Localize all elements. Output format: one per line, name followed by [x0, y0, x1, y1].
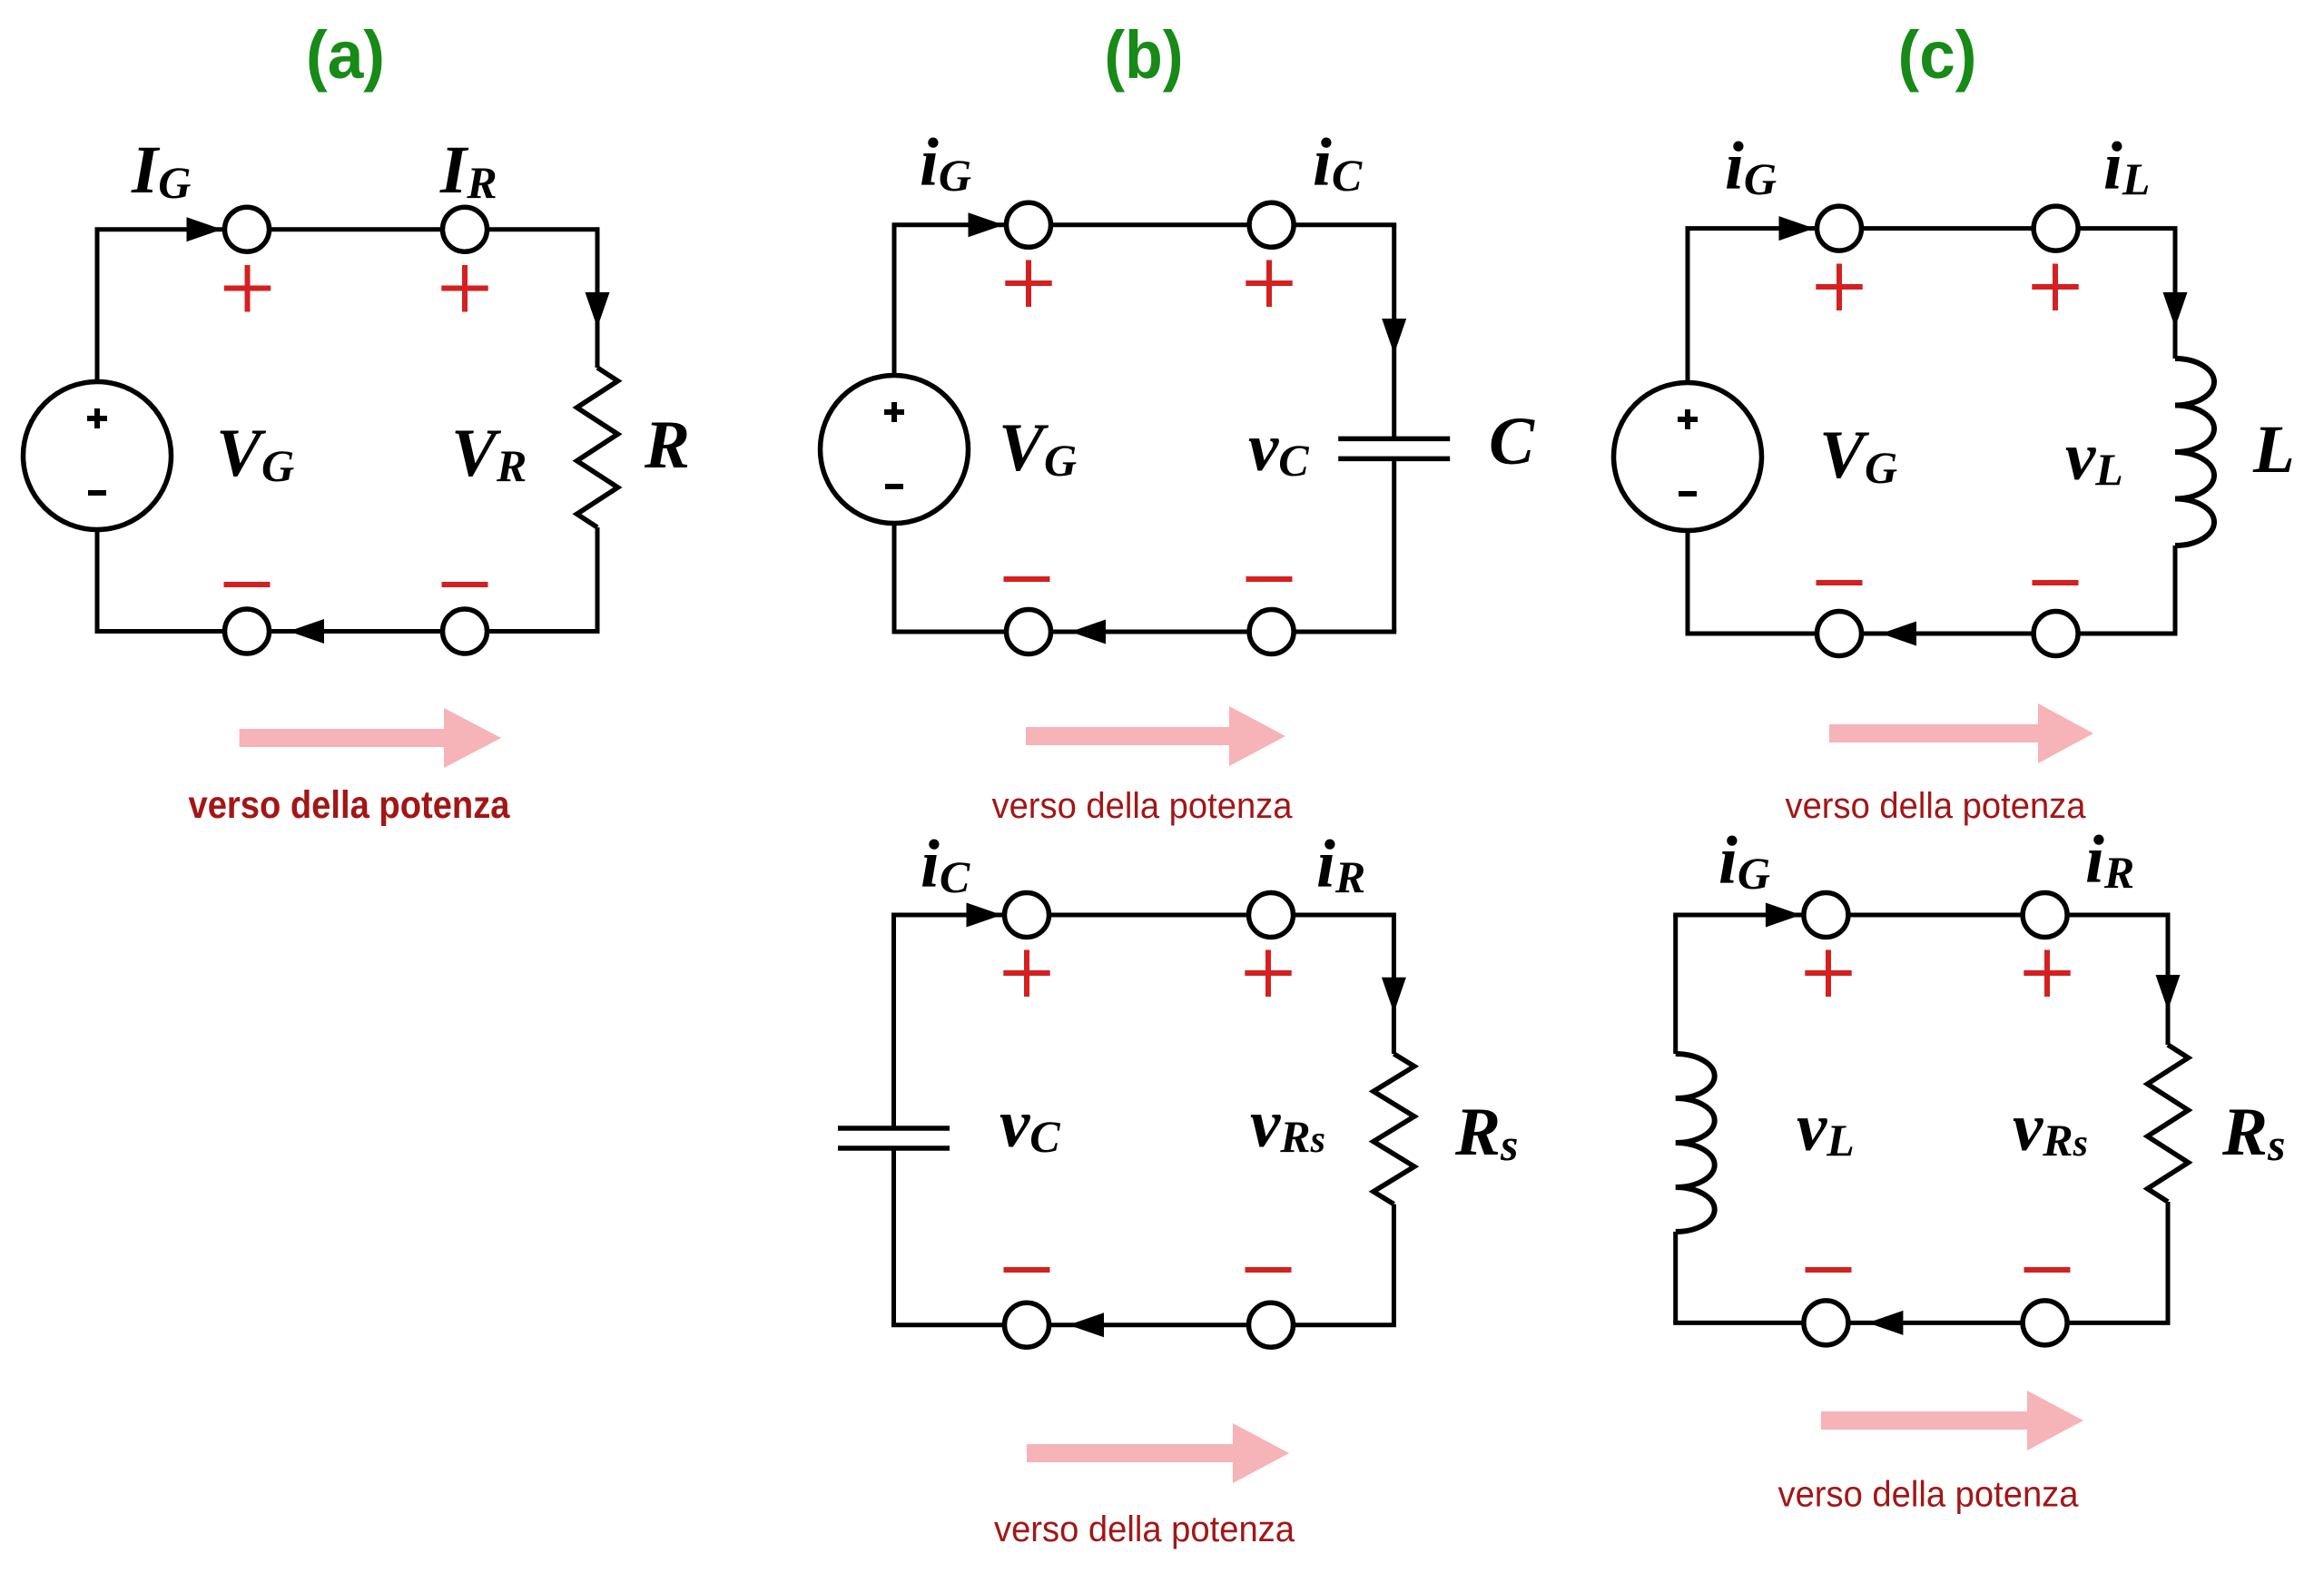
label IR (a): [439, 133, 497, 208]
svg-text:verso della potenza: verso della potenza: [1786, 786, 2087, 826]
caption verso della potenza (d): [994, 1509, 1295, 1549]
label iG (e): [1718, 823, 1770, 899]
current arrow iG (b): [969, 212, 1004, 237]
label VG (c): [1819, 418, 1897, 493]
power direction arrow (b): [1026, 706, 1285, 766]
polarity - vC terminal (b): [1246, 576, 1293, 582]
node bottom-left (d): [1005, 1303, 1049, 1347]
node top-right (e): [2023, 893, 2067, 938]
label iC (d): [921, 827, 970, 902]
node bottom-left (a): [225, 609, 270, 654]
capacitor C (b): [1338, 438, 1450, 458]
power direction arrow (c): [1829, 703, 2093, 763]
resistor Rs (d): [1374, 1054, 1414, 1204]
voltage source VG (b): [821, 376, 969, 524]
caption verso della potenza (e): [1778, 1475, 2080, 1515]
wire left (b): [892, 225, 897, 632]
current arrow iG (c): [1779, 216, 1815, 241]
polarity + vL terminal (c): [2032, 264, 2078, 311]
label vRs (d): [1250, 1086, 1325, 1162]
wire top (d): [891, 913, 1396, 918]
wire top (c): [1686, 226, 2178, 231]
node top-right (d): [1249, 893, 1294, 938]
label VG (a): [216, 416, 294, 491]
svg-text:(c): (c): [1898, 17, 1977, 93]
node bottom-left (b): [1007, 610, 1051, 654]
inductor L (c): [2175, 359, 2214, 546]
node top-left (d): [1005, 893, 1049, 938]
resistor Rs (e): [2148, 1045, 2189, 1202]
label L (c): [2252, 412, 2295, 487]
return current arrow (c): [1881, 622, 1916, 646]
return current arrow (e): [1867, 1311, 1903, 1335]
label vC (d): [1000, 1086, 1060, 1162]
node top-left (c): [1817, 206, 1862, 251]
svg-text:verso della potenza: verso della potenza: [1778, 1475, 2080, 1515]
label Rs (d): [1454, 1095, 1519, 1170]
power direction arrow (e): [1821, 1391, 2083, 1450]
power direction arrow (a): [240, 708, 501, 768]
label iG (b): [920, 125, 971, 201]
polarity + vC terminal (d): [1003, 950, 1049, 998]
label IG (a): [131, 133, 191, 208]
power direction arrow (d): [1027, 1423, 1289, 1483]
label iR (e): [2085, 822, 2134, 898]
node top-left (e): [1804, 893, 1848, 938]
caption verso della potenza (a): [189, 783, 511, 827]
label C (b): [1489, 404, 1535, 479]
node top-left (a): [225, 207, 270, 251]
node bottom-left (c): [1817, 612, 1862, 656]
header (c): [1898, 17, 1977, 93]
polarity + VG terminal (a): [224, 265, 271, 312]
current arrow iG (e): [1766, 903, 1801, 928]
node bottom-left (e): [1804, 1301, 1848, 1345]
wire right (e): [2166, 915, 2171, 1322]
voltage source VG (c): [1614, 383, 1762, 531]
header (a): [306, 17, 385, 93]
wire bottom (d): [891, 1322, 1396, 1327]
voltage source VG (a): [24, 382, 172, 530]
current arrow iR (e): [2156, 975, 2181, 1010]
wire left (a): [95, 230, 100, 632]
polarity - VR terminal (a): [442, 582, 488, 587]
polarity - VG terminal (b): [1004, 576, 1050, 582]
label vRs (e): [2013, 1090, 2088, 1165]
label VG (b): [999, 410, 1077, 486]
node top-right (b): [1249, 202, 1294, 247]
node top-right (c): [2033, 206, 2078, 251]
polarity - vL terminal (c): [2033, 580, 2079, 585]
svg-text:(a): (a): [306, 17, 385, 93]
current arrow iL (c): [2163, 292, 2188, 328]
svg-text:C: C: [1489, 404, 1535, 479]
label iL (c): [2103, 129, 2150, 204]
current arrow iC (b): [1382, 319, 1406, 354]
polarity + VR terminal (a): [441, 265, 487, 312]
return current arrow (b): [1070, 620, 1106, 644]
svg-text:verso della potenza: verso della potenza: [189, 783, 511, 827]
wire top (e): [1673, 913, 2170, 918]
wire top (b): [892, 222, 1397, 227]
label iR (d): [1316, 827, 1365, 902]
polarity + vRs terminal (e): [2024, 950, 2070, 998]
polarity + VG terminal (b): [1005, 261, 1051, 308]
label vL (e): [1797, 1090, 1855, 1165]
svg-text:L: L: [2252, 412, 2295, 487]
label vC (b): [1248, 410, 1309, 486]
header (b): [1105, 17, 1184, 93]
wire right (d): [1392, 915, 1396, 1325]
polarity - vRs terminal (d): [1246, 1267, 1292, 1273]
return current arrow (d): [1068, 1312, 1104, 1337]
current arrow iR (d): [1382, 978, 1406, 1013]
caption verso della potenza (c): [1786, 786, 2087, 826]
wire bottom (b): [892, 630, 1397, 634]
polarity - vC terminal (d): [1004, 1267, 1050, 1273]
wire right (b): [1392, 225, 1396, 632]
wire right (a): [596, 230, 600, 632]
polarity + vL terminal (e): [1805, 950, 1851, 998]
label Rs (e): [2221, 1095, 2286, 1170]
label R (a): [644, 408, 690, 483]
caption verso della potenza (b): [992, 786, 1294, 826]
wire top (a): [95, 227, 600, 231]
polarity + vRs terminal (d): [1245, 950, 1291, 998]
node bottom-right (e): [2023, 1301, 2067, 1345]
node bottom-right (d): [1249, 1303, 1294, 1347]
capacitor C (d): [838, 1128, 950, 1148]
polarity - vRs terminal (e): [2024, 1267, 2071, 1273]
svg-text:R: R: [644, 408, 690, 483]
current arrow iC (d): [967, 903, 1002, 928]
label vL (c): [2065, 419, 2123, 495]
polarity - VG terminal (a): [224, 582, 271, 587]
wire left (c): [1686, 229, 1690, 634]
current arrow IG (a): [187, 217, 222, 241]
node bottom-right (c): [2033, 612, 2078, 656]
svg-text:verso della potenza: verso della potenza: [994, 1509, 1295, 1549]
inductor L (e): [1676, 1054, 1715, 1232]
node top-right (a): [443, 207, 487, 251]
svg-text:(b): (b): [1105, 17, 1184, 93]
polarity + VG terminal (c): [1816, 264, 1862, 311]
current arrow IR (a): [586, 292, 610, 328]
polarity - vL terminal (e): [1806, 1267, 1852, 1273]
wire bottom (a): [95, 629, 600, 634]
wire left (e): [1673, 915, 1678, 1322]
label iG (c): [1725, 129, 1777, 204]
polarity - VG terminal (c): [1817, 580, 1863, 585]
node bottom-right (b): [1249, 610, 1294, 654]
resistor R (a): [577, 368, 618, 527]
polarity + vC terminal (b): [1246, 261, 1292, 308]
return current arrow (a): [289, 619, 324, 644]
wire left (d): [891, 915, 896, 1325]
label iC (b): [1313, 125, 1363, 201]
wire bottom (c): [1686, 632, 2178, 636]
wire right (c): [2173, 229, 2178, 634]
wire bottom (e): [1673, 1321, 2170, 1325]
svg-text:verso della potenza: verso della potenza: [992, 786, 1294, 826]
node top-left (b): [1007, 202, 1051, 247]
node bottom-right (a): [443, 609, 487, 654]
label VR (a): [451, 416, 527, 491]
